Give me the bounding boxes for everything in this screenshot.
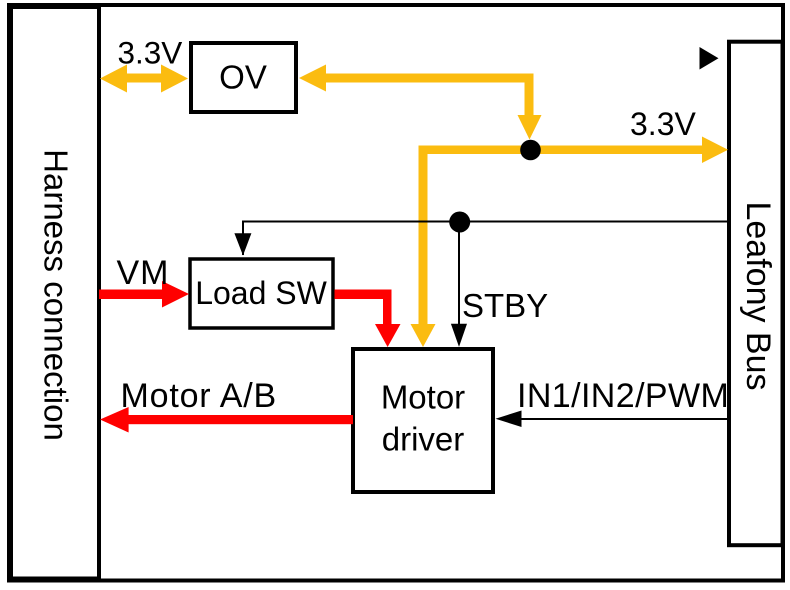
wire: red VM arrow (Harness to Load SW) [99,290,163,300]
wire: yellow vertical into Motor driver [419,146,428,325]
svg-text:driver: driver [382,421,465,458]
svg-text:Motor: Motor [381,379,465,416]
block: OV [191,43,296,112]
wire: STBY vertical into Motor driver [458,222,460,340]
block: Motor driver [353,349,493,492]
wire: thin black net from Leafony Bus to Load SW and STBY [243,222,729,256]
junction dot A (3.3V net) [520,140,541,161]
block: Leafony Bus [729,42,783,546]
svg-text:3.3V: 3.3V [118,35,183,71]
svg-text:VM: VM [117,254,170,292]
wire: thin black IN1/IN2/PWM arrow (Leafony to Motor driver) [517,418,729,420]
wire: yellow from junction up-left into OV [324,74,534,83]
svg-text:Harness connection: Harness connection [38,149,75,441]
svg-text:Leafony Bus: Leafony Bus [739,201,777,390]
wire: red Motor A/B arrow (Motor driver to Harness) [128,415,353,424]
svg-text:IN1/IN2/PWM: IN1/IN2/PWM [517,377,729,415]
marker: black triangle top-right [700,47,719,70]
block: Load SW [190,259,333,328]
wire: red from Load SW to Motor driver [335,290,392,300]
svg-text:Motor A/B: Motor A/B [121,377,277,415]
wire: 3.3V double-headed arrow (Harness to OV) [125,74,163,83]
block: Harness connection [11,7,99,579]
junction dot B (STBY net) [449,212,470,233]
svg-text:STBY: STBY [462,287,548,324]
wire: yellow 3.3V horizontal to Leafony Bus [419,146,704,155]
svg-text:Load SW: Load SW [195,275,327,311]
svg-text:3.3V: 3.3V [630,106,696,142]
svg-text:OV: OV [219,59,267,96]
